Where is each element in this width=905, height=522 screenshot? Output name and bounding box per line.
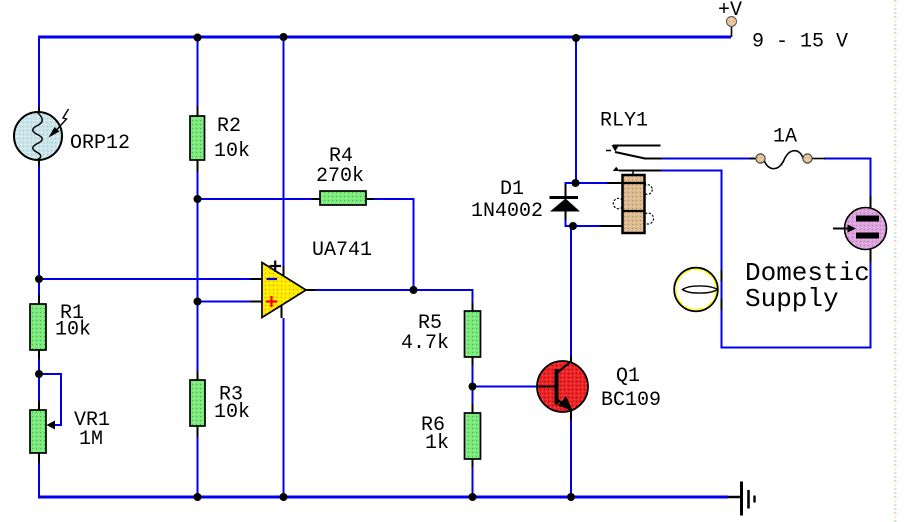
- resistor R2: [190, 116, 205, 160]
- svg-text:1k: 1k: [425, 432, 449, 455]
- wire R6 to 0V: [472, 459, 474, 496]
- wire R1 leads: [38, 295, 40, 359]
- label R5 4.7k: [401, 312, 449, 355]
- LDR ORP12: [14, 109, 69, 160]
- node output feedback: [410, 286, 418, 294]
- resistor R5: [465, 311, 481, 357]
- node diode relay top: [572, 179, 580, 187]
- wire VR1 wiper: [39, 374, 61, 425]
- label ORP12: [70, 132, 130, 155]
- node bottom rail R3: [194, 493, 202, 501]
- wire base: [473, 386, 554, 388]
- resistor R1: [30, 304, 46, 350]
- wire diode bottom branch: [566, 211, 574, 226]
- wire relay NO contact to lamp loop: [619, 159, 871, 348]
- svg-text:1A: 1A: [773, 126, 797, 149]
- op-amp U1 UA741: [262, 261, 306, 318]
- label RLY1: [600, 110, 648, 133]
- wire lamp leads: [721, 270, 723, 310]
- wire left rail: [38, 36, 40, 497]
- transistor Q1: [537, 361, 588, 412]
- node diode relay bottom: [569, 222, 577, 230]
- node inverting tap: [35, 275, 43, 283]
- svg-text:10k: 10k: [214, 401, 250, 424]
- relay RLY1 coil: [613, 175, 653, 233]
- node VR1 wiper tap: [35, 370, 43, 378]
- wire op-amp output to R5: [306, 290, 473, 311]
- wire non-inverting input: [198, 301, 263, 303]
- wire supply connector leads: [870, 196, 872, 262]
- wire R5-R6 junction: [472, 357, 474, 413]
- svg-text:+V: +V: [718, 0, 742, 22]
- wire relay coil top branch: [576, 182, 622, 184]
- node top rail R2: [194, 34, 202, 42]
- lamp: [674, 268, 718, 312]
- node bottom rail op-amp supply: [280, 493, 288, 501]
- svg-text:1N4002: 1N4002: [471, 200, 543, 223]
- wire bottom rail 0V: [38, 496, 728, 499]
- svg-text:10k: 10k: [214, 140, 250, 163]
- wire top rail +V: [38, 36, 731, 39]
- wire R4 feedback net: [198, 199, 414, 290]
- label R6 1k: [421, 414, 449, 455]
- svg-text:BC109: BC109: [601, 389, 661, 412]
- svg-text:RLY1: RLY1: [600, 110, 648, 133]
- wire R2-R3 divider vertical: [197, 38, 199, 496]
- domestic supply connector: [833, 208, 887, 250]
- label D1 1N4002: [471, 178, 543, 223]
- wire diode top branch: [566, 183, 576, 197]
- svg-text:4.7k: 4.7k: [401, 332, 449, 355]
- svg-text:UA741: UA741: [312, 239, 372, 262]
- ground: [728, 482, 755, 516]
- label +V: [718, 0, 742, 22]
- svg-text:ORP12: ORP12: [70, 132, 130, 155]
- label R2 10k: [214, 115, 250, 163]
- svg-text:270k: 270k: [316, 165, 364, 188]
- svg-text:Supply: Supply: [745, 284, 839, 314]
- label R1 10k: [55, 302, 91, 342]
- svg-text:9 - 15 V: 9 - 15 V: [752, 31, 848, 54]
- relay armature link: [632, 171, 634, 177]
- svg-text:1M: 1M: [79, 428, 103, 451]
- relay NC contact: [606, 145, 661, 152]
- resistor R3: [190, 380, 205, 426]
- svg-text:D1: D1: [500, 178, 524, 201]
- node R5 R6 base: [469, 383, 477, 391]
- node bottom rail emitter: [567, 493, 575, 501]
- wire relay supply vertical: [575, 38, 577, 182]
- node top rail relay: [572, 34, 580, 42]
- label Q1 BC109: [601, 365, 661, 412]
- label R3 10k: [214, 384, 250, 425]
- label R4 270k: [316, 145, 364, 188]
- svg-text:R2: R2: [217, 115, 241, 138]
- wire op-amp supply vertical: [282, 38, 284, 496]
- node non-inverting tap: [194, 298, 202, 306]
- label VR1 1M: [74, 409, 110, 451]
- wire emitter to 0V: [570, 411, 572, 496]
- resistor R4: [320, 191, 366, 205]
- fuse 1A: [749, 151, 825, 169]
- label 1A: [773, 126, 797, 149]
- node top rail op-amp supply: [280, 33, 288, 41]
- wire collector: [570, 226, 572, 363]
- resistor R6: [465, 413, 481, 459]
- wire inverting input: [39, 278, 262, 280]
- wire VR1 leads: [38, 401, 40, 463]
- wire relay common to fuse: [661, 158, 755, 160]
- label Domestic Supply: [745, 258, 870, 314]
- node bottom rail R6: [469, 493, 477, 501]
- node R2 bottom: [194, 195, 202, 203]
- svg-text:Q1: Q1: [616, 365, 640, 388]
- label UA741: [312, 239, 372, 262]
- wire LDR leads: [38, 107, 40, 166]
- diode D1: [550, 196, 581, 212]
- relay NO contact: [613, 167, 620, 171]
- potentiometer VR1: [30, 410, 55, 453]
- terminal +V: [727, 17, 737, 38]
- relay armature: [615, 152, 662, 159]
- wire relay coil bottom branch: [573, 225, 622, 227]
- svg-text:10k: 10k: [55, 319, 91, 342]
- right edge scan artifact: [894, 0, 897, 522]
- label 9 - 15 V: [752, 31, 848, 54]
